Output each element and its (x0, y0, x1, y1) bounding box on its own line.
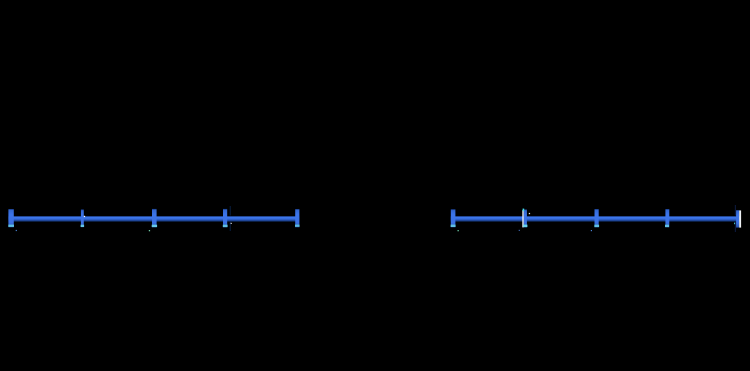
number line B tick 2 cyan cap (523, 225, 527, 228)
number line A tick 2 cyan cap (81, 225, 85, 227)
number line B tick 2 (524, 209, 527, 227)
white speck near tick 4 of line A (231, 223, 232, 224)
number line A right endpoint bar (295, 209, 299, 227)
number line A wire (8, 216, 299, 221)
number line B tick 2 white bar (522, 210, 524, 227)
white speck on line A right of tick 2 (84, 216, 85, 217)
number line B right endpoint cyan dot (734, 223, 735, 225)
speck below tick 2 of line B (519, 230, 520, 231)
number line A tick 4 cyan cap (223, 225, 228, 227)
number line B left endpoint bar (451, 209, 456, 227)
number line A tick 3 (152, 209, 157, 227)
number line B right endpoint bar (736, 210, 739, 228)
number line B wire (451, 216, 741, 221)
number line A left endpoint bar (8, 209, 13, 227)
white speck right of tick 2 of line B (529, 213, 530, 214)
number line B left endpoint cyan cap (451, 225, 456, 227)
number line B tick 4 cyan cap (665, 225, 669, 227)
faint vertical artifact above wire near tick 4 of line A (230, 206, 231, 216)
speck below tick 3 of line B (591, 230, 592, 231)
speck below left endpoint of line B (458, 230, 459, 231)
faint vertical artifact above wire near right endpoint of line B (735, 205, 736, 216)
number line B right endpoint white bar (739, 210, 741, 227)
number line B tick 3 (595, 209, 599, 227)
number line A left endpoint cyan cap (8, 225, 14, 227)
number line A tick 3 cyan cap (152, 225, 157, 227)
number line A right endpoint cyan cap (295, 225, 300, 227)
number line B tick 3 cyan cap (594, 225, 599, 227)
number line B tick 4 (665, 209, 669, 227)
faint vertical artifact below wire near right endpoint of line B (735, 222, 736, 232)
speck below tick 3 of line A (149, 230, 150, 231)
number line B tick 2 top cyan mark (523, 209, 525, 212)
speck below left endpoint of line A (16, 230, 17, 231)
number line A tick 2 (81, 209, 84, 227)
number line A tick 4 (223, 209, 227, 227)
faint vertical artifact below wire near tick 4 of line A (230, 222, 231, 231)
